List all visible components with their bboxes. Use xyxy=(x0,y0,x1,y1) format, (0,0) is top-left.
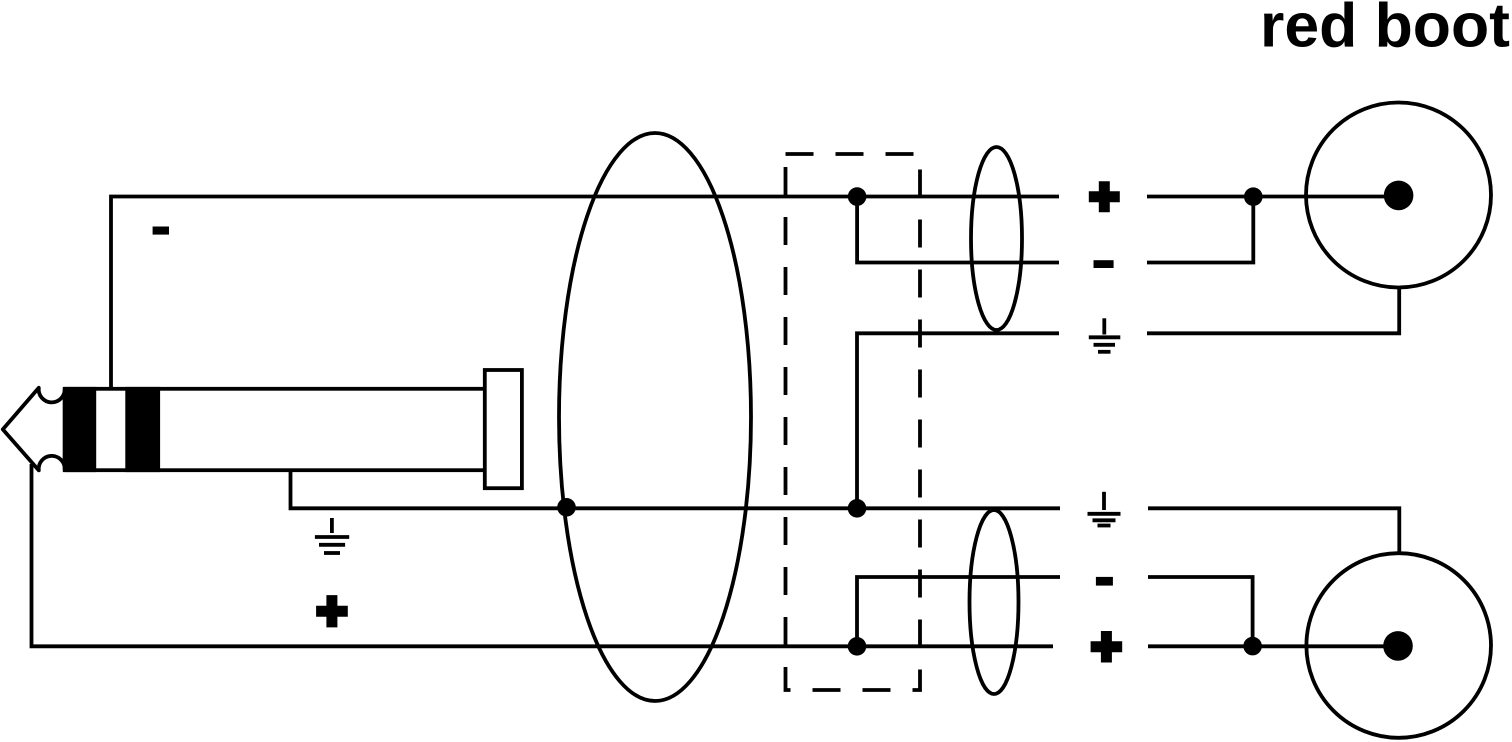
TRS jack plug J1: tip insulator band 1 xyxy=(65,387,97,472)
RCA connector P2 (top right, shell circle) xyxy=(1306,103,1491,288)
RCA connector P3 (bottom right, shell circle) xyxy=(1306,553,1491,738)
junction: shield bus tee xyxy=(848,499,867,518)
split breakout (dashed box) xyxy=(786,154,921,690)
wire: top + conductor from label to RCA P2 center pin xyxy=(1147,195,1399,199)
cable jacket ellipse (top lead) xyxy=(971,147,1022,330)
junction: bottom +/- tie at breakout xyxy=(848,637,867,656)
svg-text:red boot: red boot xyxy=(1260,0,1510,60)
ground symbol (bottom channel) xyxy=(1088,492,1121,526)
cable jacket ellipse (main cable) xyxy=(559,133,751,701)
ground symbol (jack sleeve) xyxy=(315,518,349,553)
TRS jack plug J1: collar xyxy=(485,370,522,488)
wire: jack sleeve down and across shield bus xyxy=(291,469,1061,508)
wire: bottom ground lead to RCA P3 shell xyxy=(1148,508,1399,554)
wire: top - branch from junction down and right xyxy=(857,197,1059,263)
wire: shield riser to top channel ground xyxy=(857,333,1059,508)
junction: top - tie at RCA P2 xyxy=(1244,187,1263,206)
TRS jack plug J1: tip xyxy=(3,388,65,471)
label - (bottom channel) xyxy=(1096,577,1113,586)
wire: top ground lead to RCA P2 shell xyxy=(1147,287,1399,334)
RCA P2 center pin xyxy=(1384,181,1414,211)
junction: shield to cable jacket xyxy=(557,498,576,517)
label + (jack tip polarity) xyxy=(316,595,348,627)
wire: bottom - branch from junction up and right xyxy=(857,577,1060,646)
junction: top +/- tie at breakout xyxy=(848,187,867,206)
wire: bottom - conductor joining + node at RCA side xyxy=(1148,577,1253,646)
junction: bottom - tie at RCA P3 xyxy=(1243,637,1262,656)
label - (jack ring polarity) xyxy=(153,227,169,235)
wire: bottom + conductor from label to RCA P3 center pin xyxy=(1148,644,1399,648)
TRS jack plug J1: ring insulator band 2 xyxy=(125,387,160,472)
wire: top - conductor joining + node at RCA side xyxy=(1147,197,1253,263)
cable jacket ellipse (bottom lead) xyxy=(970,510,1019,694)
label + (top channel) xyxy=(1089,181,1120,212)
label - (top channel) xyxy=(1094,260,1114,268)
TRS jack plug J1: barrel xyxy=(65,389,485,470)
wire: jack ring contact up and across to top + conductor xyxy=(111,197,1059,391)
RCA P3 center pin xyxy=(1383,631,1413,661)
label + (bottom channel) xyxy=(1091,631,1123,663)
wire: jack tip down and across to bottom + conductor xyxy=(32,464,1054,646)
ground symbol (top channel) xyxy=(1089,318,1121,352)
